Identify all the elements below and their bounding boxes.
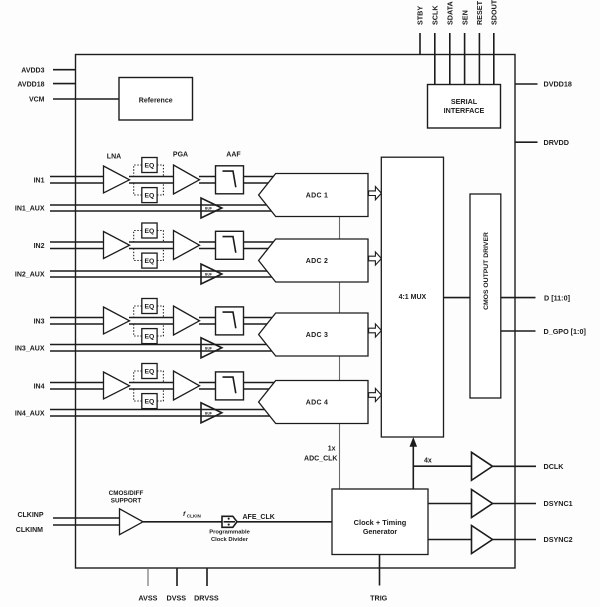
svg-text:CLKINP: CLKINP [17, 512, 43, 519]
pin AVSS [147, 568, 149, 586]
svg-text:SEN: SEN [460, 10, 469, 25]
amplifier BUF channel 1 [201, 198, 222, 218]
wire clock gen to DSYNC1 buffer [428, 503, 472, 505]
svg-text:EQ: EQ [144, 163, 154, 170]
amplifier PGA channel 3 [174, 306, 200, 335]
wire IN2_AUX differential pair [50, 271, 272, 277]
wire 4x branch to DCLK buffer [413, 465, 471, 467]
svg-text:SCLK: SCLK [431, 5, 440, 25]
wire IN3 differential pair [50, 318, 104, 325]
wire: ADC_CLK vertical distribution line [339, 195, 341, 489]
equalizer EQ bottom channel 2 (dashed bypass) [134, 249, 164, 261]
svg-text:Reference: Reference [139, 98, 173, 105]
svg-text:Generator: Generator [363, 527, 398, 536]
svg-text:AVDD18: AVDD18 [17, 81, 44, 88]
svg-text:EQ: EQ [144, 228, 154, 235]
block CMOS OUTPUT DRIVER [470, 194, 501, 398]
pin SDOUT [493, 33, 495, 85]
svg-text:DRVSS: DRVSS [194, 593, 219, 602]
ADC 4 block [259, 381, 368, 424]
equalizer EQ bottom channel 1 (dashed bypass) [134, 183, 164, 195]
pin RESET [478, 33, 480, 85]
wire MUX to CMOS output driver [444, 297, 471, 299]
svg-text:SERIAL: SERIAL [451, 97, 478, 106]
amplifier LNA channel 1 [104, 166, 130, 193]
pin TRIG [379, 555, 381, 586]
svg-text:AVSS: AVSS [138, 593, 157, 602]
bus arrow ADC 4 to MUX [369, 388, 382, 401]
svg-text:VCM: VCM [29, 97, 45, 104]
svg-text:ADC 2: ADC 2 [306, 258, 329, 265]
svg-text:STBY: STBY [416, 6, 425, 25]
amplifier clock input buffer [120, 509, 144, 535]
svg-text:AFE_CLK: AFE_CLK [243, 514, 275, 521]
svg-text:IN3_AUX: IN3_AUX [15, 345, 45, 352]
block 4:1 MUX [381, 157, 443, 437]
svg-text:IN1: IN1 [34, 177, 45, 184]
svg-text:TRIG: TRIG [370, 594, 388, 603]
pin SCLK [434, 33, 436, 85]
amplifier PGA channel 2 [174, 231, 200, 260]
amplifier LNA channel 3 [104, 307, 130, 334]
svg-text:INTERFACE: INTERFACE [444, 106, 485, 115]
svg-text:CMOS/DIFF: CMOS/DIFF [109, 490, 144, 497]
pin DRVDD [515, 141, 538, 143]
wire IN1 differential pair [50, 177, 104, 184]
svg-text:EQ: EQ [144, 304, 154, 311]
svg-text:BUF: BUF [205, 273, 212, 277]
ADC 2 block [259, 239, 368, 282]
svg-text:RESET: RESET [475, 0, 484, 25]
amplifier BUF channel 3 [201, 338, 222, 358]
svg-text:DVSS: DVSS [167, 593, 187, 602]
svg-text:LNA: LNA [107, 154, 121, 161]
svg-text:Clock Divider: Clock Divider [211, 537, 249, 543]
wire clock buffer to clock gen (AFE_CLK) [143, 521, 332, 523]
pin D [11:0] [501, 297, 536, 299]
svg-text:IN2: IN2 [34, 243, 45, 250]
wire clock gen to DSYNC2 buffer [428, 539, 472, 541]
equalizer EQ top channel 3 (dashed bypass) [134, 306, 164, 318]
svg-text:IN3: IN3 [34, 318, 45, 325]
svg-text:DCLK: DCLK [544, 462, 565, 471]
filter AAF channel 1 [216, 166, 244, 194]
wire IN4 differential pair [50, 383, 104, 390]
svg-text:AAF: AAF [226, 152, 241, 159]
pin SEN [464, 33, 466, 85]
equalizer EQ bottom channel 3 (dashed bypass) [134, 324, 164, 336]
svg-text:DSYNC1: DSYNC1 [544, 499, 573, 508]
wire 4x clock to MUX with arrowhead [412, 446, 414, 489]
svg-text:CLKINM: CLKINM [16, 527, 43, 534]
svg-text:Clock + Timing: Clock + Timing [354, 518, 407, 527]
svg-text:4:1 MUX: 4:1 MUX [399, 294, 427, 301]
svg-text:PGA: PGA [173, 152, 188, 159]
bus arrow ADC 1 to MUX [369, 187, 382, 200]
svg-text:AVDD3: AVDD3 [21, 67, 44, 74]
svg-text:D [11:0]: D [11:0] [544, 293, 570, 302]
svg-text:IN4_AUX: IN4_AUX [15, 410, 45, 417]
svg-text:EQ: EQ [144, 258, 154, 265]
svg-text:SDOUT: SDOUT [490, 0, 499, 25]
svg-text:EQ: EQ [144, 193, 154, 200]
pin DVDD18 [515, 83, 538, 85]
wire IN3_AUX differential pair [50, 345, 272, 352]
equalizer EQ bottom channel 4 (dashed bypass) [134, 389, 164, 401]
svg-text:CMOS OUTPUT DRIVER: CMOS OUTPUT DRIVER [483, 232, 490, 310]
svg-text:ADC_CLK: ADC_CLK [304, 456, 337, 463]
svg-text:EQ: EQ [144, 369, 154, 376]
svg-text:4x: 4x [424, 458, 432, 465]
svg-text:ADC 1: ADC 1 [306, 193, 329, 200]
wire IN1_AUX differential pair [50, 205, 272, 211]
ADC 3 block [259, 313, 368, 356]
block Reference [119, 78, 193, 121]
filter AAF channel 4 [216, 372, 244, 400]
buffer DSYNC1 [472, 490, 493, 518]
svg-text:D_GPO [1:0]: D_GPO [1:0] [544, 327, 586, 336]
chip outline box [76, 55, 516, 569]
filter AAF channel 2 [216, 231, 244, 259]
svg-text:ADC 4: ADC 4 [306, 400, 329, 407]
amplifier PGA channel 4 [174, 371, 200, 400]
svg-text:IN2_AUX: IN2_AUX [15, 272, 45, 279]
svg-text:CLKIN: CLKIN [187, 514, 202, 519]
wire IN2 differential pair [50, 242, 104, 249]
svg-text:ADC 3: ADC 3 [306, 332, 329, 339]
divider programmable clock divider [222, 516, 237, 527]
bus arrow ADC 3 to MUX [369, 324, 382, 337]
amplifier BUF channel 4 [201, 403, 222, 423]
pin DVSS [176, 568, 178, 586]
amplifier LNA channel 2 [104, 232, 130, 259]
pin SDATA [449, 33, 451, 85]
svg-text:SUPPORT: SUPPORT [111, 498, 142, 505]
equalizer EQ top channel 4 (dashed bypass) [134, 371, 164, 383]
svg-text:EQ: EQ [144, 334, 154, 341]
svg-text:IN1_AUX: IN1_AUX [15, 206, 45, 213]
equalizer EQ top channel 1 (dashed bypass) [134, 165, 164, 177]
svg-text:DSYNC2: DSYNC2 [544, 535, 573, 544]
svg-text:DVDD18: DVDD18 [544, 80, 572, 89]
svg-text:BUF: BUF [205, 207, 212, 211]
wire VCM to Reference [53, 98, 119, 100]
svg-text:BUF: BUF [205, 411, 212, 415]
svg-text:IN4: IN4 [34, 383, 45, 390]
svg-text:DRVDD: DRVDD [544, 138, 569, 147]
block SERIAL INTERFACE [428, 85, 501, 129]
pin STBY [419, 33, 421, 55]
amplifier LNA channel 4 [104, 372, 130, 399]
buffer DSYNC2 [472, 526, 493, 554]
amplifier PGA channel 1 [174, 165, 200, 194]
svg-text:SDATA: SDATA [446, 1, 455, 25]
buffer DCLK [472, 452, 493, 480]
pin DRVSS [206, 568, 208, 586]
amplifier BUF channel 2 [201, 264, 222, 284]
ADC 1 block [259, 174, 368, 217]
svg-text:1x: 1x [328, 445, 336, 452]
block Clock + Timing Generator [332, 489, 428, 555]
equalizer EQ top channel 2 (dashed bypass) [134, 231, 164, 243]
svg-text:Programmable: Programmable [209, 529, 250, 535]
svg-text:BUF: BUF [205, 346, 212, 350]
bus arrow ADC 2 to MUX [369, 252, 382, 265]
filter AAF channel 3 [216, 307, 244, 335]
wire IN4_AUX differential pair [50, 410, 272, 417]
pin D_GPO [1:0] [501, 330, 536, 332]
svg-text:EQ: EQ [144, 399, 154, 406]
